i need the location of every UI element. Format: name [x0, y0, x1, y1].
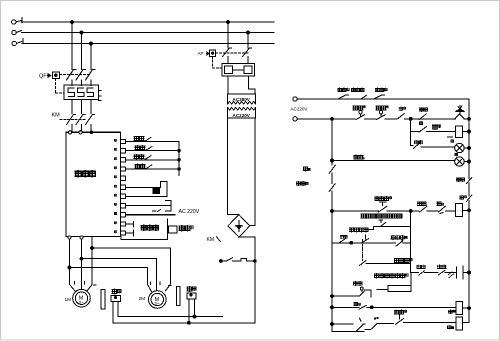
- node L2-main: [80, 31, 83, 34]
- wire pole2b: [81, 100, 83, 114]
- row2 wire + button 下降: [126, 150, 180, 152]
- lamp HL2 label: [455, 153, 458, 156]
- relay coil2: [456, 317, 463, 330]
- rung4 drop: [411, 132, 413, 146]
- node L3-main: [90, 42, 93, 45]
- row6 wire + pot: [126, 186, 161, 188]
- contactor KM pole 1: [67, 115, 76, 125]
- contact B label: [354, 302, 358, 306]
- connector bars: [457, 266, 463, 279]
- contactor KM pole 2: [76, 115, 85, 125]
- lamp HL1: [455, 143, 464, 152]
- contact FR label: [437, 202, 441, 206]
- contact near rail: [339, 239, 345, 243]
- button A label: [353, 282, 357, 286]
- brake coil YB2 label: [187, 287, 192, 292]
- node rung KM: [409, 210, 412, 213]
- wire fuse to transformer left: [227, 76, 229, 94]
- contact rung2b: [419, 114, 427, 120]
- breaker QF linkage dashed: [59, 74, 91, 76]
- relay coil KA1b label: [449, 310, 453, 314]
- button SB2 label: [376, 106, 380, 110]
- transformer T1 secondary: [228, 108, 256, 119]
- brake resistor label: [179, 226, 184, 231]
- button SB1: [359, 111, 362, 114]
- bridge rectifier VC diamond: [228, 215, 250, 238]
- analog bracket: [161, 182, 168, 197]
- motor 1M: [73, 289, 91, 307]
- right rail: [467, 99, 469, 322]
- row1 wire + button 上升: [126, 141, 180, 143]
- wire pole1b: [71, 100, 73, 114]
- contact rung4: [414, 142, 455, 149]
- node rail-top: [331, 117, 334, 120]
- contact KA 272 label: [438, 265, 442, 269]
- wire phase2 drop: [81, 33, 83, 70]
- row8 wire + bracket: [126, 200, 171, 211]
- contactor KM linkage dashed: [60, 119, 86, 121]
- button SB1 label: [353, 106, 357, 110]
- wire L1: [21, 21, 274, 23]
- rung5 wire: [331, 159, 334, 162]
- contact KM 272 label: [417, 265, 421, 269]
- motor 2M: [149, 291, 167, 309]
- node V branch: [80, 257, 83, 260]
- brake pad bar 1: [101, 290, 105, 309]
- node dashdot: [350, 241, 353, 244]
- rail contact FR: [329, 184, 335, 192]
- contact KM aux: [420, 206, 439, 212]
- DC right rail: [254, 237, 256, 323]
- fuse block FU box: [222, 64, 254, 77]
- brake resistor bar: [167, 219, 169, 239]
- button C: [396, 315, 457, 324]
- breaker QF2 linkage dashed: [216, 52, 248, 54]
- lamp HL2: [455, 157, 464, 166]
- wire pole3b: [90, 100, 92, 114]
- breaker QF2 operator box: [207, 52, 210, 55]
- svg-text:AC380V: AC380V: [233, 97, 251, 102]
- rung KM wire: [331, 210, 334, 213]
- wire ctrl phase2 drop: [247, 33, 249, 49]
- emergency stop mushroom: [456, 109, 464, 111]
- wire V down: [81, 239, 83, 290]
- svg-text:AC220V: AC220V: [233, 113, 251, 118]
- brake coil YB2 box: [187, 293, 196, 299]
- node T on inverter edge: [90, 131, 93, 134]
- svg-text:3~: 3~: [79, 300, 85, 305]
- svg-text:AC 220V: AC 220V: [179, 209, 200, 215]
- wire L3: [22, 43, 274, 45]
- YB1 pins: [113, 302, 118, 323]
- svg-text:AP: AP: [198, 51, 204, 56]
- header label FU: [351, 88, 355, 92]
- svg-text:KM: KM: [207, 237, 215, 243]
- annotation 能耗制动: [361, 214, 365, 218]
- row9 wire: [126, 214, 175, 216]
- contact FR NC: [439, 206, 456, 213]
- DC lower bus: [113, 322, 255, 324]
- row9 marks: [153, 210, 161, 212]
- contact near rail label: [340, 235, 343, 238]
- node rung2/rung3: [409, 117, 412, 120]
- rung1 switch QS: [338, 95, 348, 99]
- label KA coil: [433, 125, 438, 130]
- wire pole3: [90, 80, 92, 86]
- supply terminal B: [293, 117, 297, 121]
- tick: [447, 136, 452, 138]
- contact KM 272: [419, 271, 439, 275]
- rung B: [331, 306, 334, 309]
- button SB4 label: [375, 197, 379, 201]
- rectifier diode symbol: [235, 221, 242, 232]
- limit switch 2SQ lower stem: [362, 235, 369, 243]
- wire to inverter R: [71, 125, 73, 133]
- button SB2: [379, 111, 382, 114]
- row3 wire + button: [126, 159, 180, 161]
- brake unit label: [141, 225, 146, 230]
- wire ctrl phase1 drop: [227, 22, 229, 48]
- contact B: [359, 305, 456, 309]
- wire to brake box: [377, 288, 388, 290]
- label JXZ: [394, 258, 398, 262]
- brake ground wire: [121, 237, 168, 240]
- rung1 switch SA: [374, 95, 385, 99]
- contact rung3: [419, 127, 456, 133]
- node L1-ctrl: [227, 21, 230, 24]
- breaker QF2 pole1: [223, 48, 232, 64]
- svg-text:2M: 2M: [139, 296, 146, 302]
- contactor coil KM: [456, 203, 463, 216]
- button SB4: [379, 202, 419, 212]
- contact rung3 label: [419, 122, 422, 125]
- rail KM-common vertical: [410, 211, 412, 273]
- left rail lower: [331, 191, 333, 331]
- wire pole2: [81, 80, 83, 86]
- node L2-ctrl: [247, 31, 250, 34]
- contact KA 272: [439, 270, 456, 274]
- lamp HL1 label: [451, 140, 454, 143]
- DC upper bus: [118, 316, 223, 318]
- rail contact KT2 label: [460, 196, 464, 200]
- rail contact KT1: [467, 178, 472, 184]
- rail contact KT1 label: [457, 178, 461, 182]
- wire phase1 drop: [71, 22, 73, 70]
- contact rung4 label: [414, 140, 418, 144]
- brake pad bar 2: [177, 287, 181, 306]
- wire U down: [70, 239, 76, 292]
- rung 272 wire: [411, 272, 419, 274]
- brake resistor R1 box: [169, 226, 178, 233]
- brake connection box: [410, 273, 412, 286]
- wire V to motor2: [82, 259, 157, 291]
- secondary wire left: [228, 118, 239, 215]
- row4 wire + button: [126, 168, 180, 170]
- rectifier bottom wire: [239, 236, 255, 238]
- brake coil YB1 label: [112, 289, 117, 294]
- terminal L2: [12, 30, 16, 34]
- header label SA: [376, 88, 380, 92]
- common bus for rows: [178, 142, 180, 176]
- button C label: [395, 310, 399, 314]
- contact C1: [356, 324, 365, 332]
- breaker QF operator box: [52, 72, 59, 79]
- rail contact KA: [329, 165, 335, 173]
- contact KM-brake rung: [219, 260, 222, 263]
- breaker QF pole 1: [67, 70, 77, 81]
- FR heater pole3: [87, 88, 94, 97]
- rail contact KA label: [303, 167, 307, 171]
- breaker QF pole 2: [76, 70, 86, 81]
- wire to inverter S: [81, 125, 83, 133]
- row7 wire: [126, 195, 168, 197]
- limit switch 1SQ label: [391, 235, 395, 239]
- breaker QF2 pole2: [243, 48, 252, 64]
- wire phase3 drop: [90, 44, 92, 70]
- wire U to motor2: [70, 268, 152, 292]
- limit switch 2SQ upper: [365, 220, 410, 230]
- contactor KM pole 3: [86, 115, 95, 125]
- node W branch: [91, 247, 94, 250]
- svg-text:AC220V: AC220V: [291, 106, 309, 111]
- lower limit contact: [360, 261, 411, 266]
- inverter label 变频器: [75, 171, 81, 177]
- rung1 wire: [297, 98, 469, 100]
- node U branch: [68, 266, 71, 269]
- rung A: [331, 295, 334, 298]
- contact C2: [365, 324, 394, 330]
- rung3 drop: [411, 119, 419, 132]
- left rail upper: [331, 119, 333, 165]
- contact KM aux label: [418, 202, 422, 206]
- rung2 wire: [297, 118, 355, 120]
- contact C2 marks: [374, 318, 375, 319]
- contact C1 tick: [360, 318, 362, 321]
- emergency stop button label: [458, 106, 462, 109]
- wire L2: [22, 32, 275, 34]
- wire W to motor2: [92, 248, 170, 291]
- YB2 pins: [189, 299, 195, 323]
- inverter terminal circles R S: [68, 131, 71, 134]
- button A: [360, 287, 363, 290]
- rung C: [331, 323, 334, 326]
- label 2SQ1b: [350, 228, 354, 232]
- FR heater pole2: [78, 88, 85, 97]
- inverter right terminal tabs: [121, 139, 126, 235]
- terminal L1: [12, 20, 16, 24]
- svg-text:1M: 1M: [65, 297, 72, 303]
- wire fuse to transformer right (jog): [248, 76, 255, 94]
- rail contact FR label: [297, 182, 301, 186]
- wire to inverter T: [90, 125, 92, 133]
- svg-text:3~: 3~: [154, 301, 160, 306]
- brake terminal wires P PR: [126, 222, 134, 237]
- svg-text:QF: QF: [39, 74, 47, 80]
- motor 2M terminal ticks: [151, 282, 172, 286]
- transformer T1 primary: [228, 94, 256, 104]
- relay coil KA1: [456, 126, 463, 138]
- mech linkage dash-dot: [362, 240, 364, 262]
- rung 242 wire: [332, 242, 351, 244]
- inverter bottom terminals U V W: [68, 236, 71, 239]
- FR heater pole1: [68, 88, 75, 97]
- relay coil1: [456, 302, 463, 315]
- node rung2 rail: [468, 117, 471, 120]
- brake coil YB1 box: [111, 296, 120, 302]
- wire pole1: [71, 80, 73, 86]
- inverter U1 box: [66, 132, 121, 236]
- contact KA rung2: [398, 113, 456, 119]
- breaker QF pole 3: [86, 70, 96, 81]
- header label QS: [338, 88, 342, 92]
- brake box annotation text: [374, 274, 378, 278]
- contact rung2b label: [420, 108, 424, 112]
- node L1-main: [71, 21, 74, 24]
- motor 1M terminal ticks: [75, 282, 97, 286]
- limit switch 1SQ: [396, 239, 411, 246]
- plug marks: [449, 272, 454, 278]
- breaker QF operator arrow: [48, 74, 51, 78]
- wire W down: [87, 237, 92, 292]
- thermal relay FR box: [64, 85, 99, 100]
- terminal L3: [12, 41, 16, 45]
- relay coil KA2b label: [447, 325, 451, 329]
- svg-text:KM: KM: [52, 113, 61, 119]
- supply terminal A: [293, 97, 297, 101]
- secondary wire right: [250, 118, 255, 226]
- rung1 fuse mark: [362, 95, 367, 98]
- rail contact KT2: [467, 195, 472, 201]
- left rail mid: [331, 173, 333, 184]
- contact KA label: [399, 107, 403, 111]
- rung5 label KA: [354, 155, 358, 159]
- terminal id marks: [114, 139, 116, 141]
- FR right stubs: [99, 90, 102, 100]
